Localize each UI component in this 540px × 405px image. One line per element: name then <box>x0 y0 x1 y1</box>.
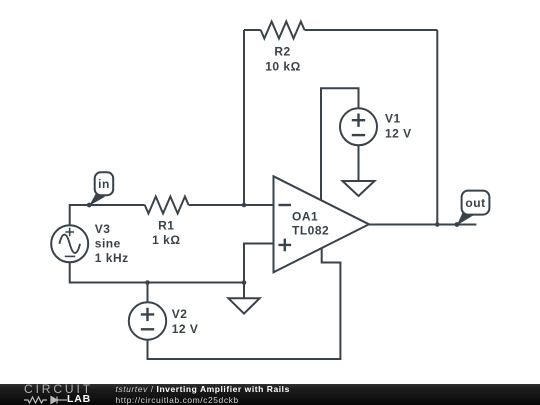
wire V1 bottom to ground <box>358 145 360 181</box>
junction dot at in node <box>87 203 92 208</box>
voltage source V3 (sine) <box>51 225 88 262</box>
node in flag <box>95 172 114 195</box>
junction dot V2 branch <box>145 280 150 285</box>
voltage source V1 <box>340 108 377 145</box>
wire stub to ground <box>243 283 245 299</box>
junction dot out node <box>455 222 460 227</box>
voltage source V2 <box>129 302 166 339</box>
wire V2 bottom rail to op-amp V- pin <box>148 248 341 359</box>
svg-text:V3: V3 <box>95 222 111 236</box>
wire V2 top <box>147 283 149 303</box>
resistor R2 <box>261 22 305 39</box>
svg-text:V2: V2 <box>172 307 188 321</box>
svg-text:1 kΩ: 1 kΩ <box>152 233 180 247</box>
svg-text:sine: sine <box>95 237 121 251</box>
junction dot inverting input <box>242 203 247 208</box>
footer url <box>116 395 239 405</box>
svg-text:10 kΩ: 10 kΩ <box>265 60 300 74</box>
svg-text:out: out <box>465 196 485 210</box>
node out flag <box>462 191 490 215</box>
junction dot ground rail <box>242 280 247 285</box>
wire top left lead <box>244 29 261 31</box>
wire feedback left vertical (R2 left to inverting input) <box>243 30 245 205</box>
svg-text:12 V: 12 V <box>172 322 199 336</box>
logo resistor-diode glyph <box>24 395 68 405</box>
op-amp OA1 <box>274 176 370 272</box>
ground (V1) <box>343 181 375 196</box>
footer bar <box>0 384 540 405</box>
wire op-amp V+ pin to V1 <box>321 88 359 200</box>
svg-text:in: in <box>98 177 110 191</box>
svg-text:V1: V1 <box>385 112 401 126</box>
wire noninverting input down to rail <box>244 244 274 283</box>
wire R1 to op-amp inverting input <box>189 204 274 206</box>
svg-text:1 kHz: 1 kHz <box>95 251 129 265</box>
node in flag tail <box>89 191 105 206</box>
wire V3 top to input row <box>70 205 145 225</box>
wire output <box>369 224 476 226</box>
junction dot feedback/output <box>435 222 440 227</box>
svg-text:OA1: OA1 <box>292 210 318 224</box>
logo CIRCUIT text <box>24 384 93 395</box>
resistor R1 <box>145 197 189 214</box>
svg-text:TL082: TL082 <box>292 224 329 238</box>
ground (noninverting input) <box>228 298 259 313</box>
svg-text:R1: R1 <box>158 219 174 233</box>
wire V3 bottom to ground rail <box>70 262 244 282</box>
wire right vertical (to output node) <box>436 30 438 225</box>
wire top right (R2 to right vertical) <box>305 29 438 31</box>
node out flag tail <box>457 209 474 225</box>
logo LAB text <box>67 395 91 404</box>
svg-text:12 V: 12 V <box>385 127 412 141</box>
svg-text:R2: R2 <box>274 45 290 59</box>
footer title <box>116 384 290 394</box>
